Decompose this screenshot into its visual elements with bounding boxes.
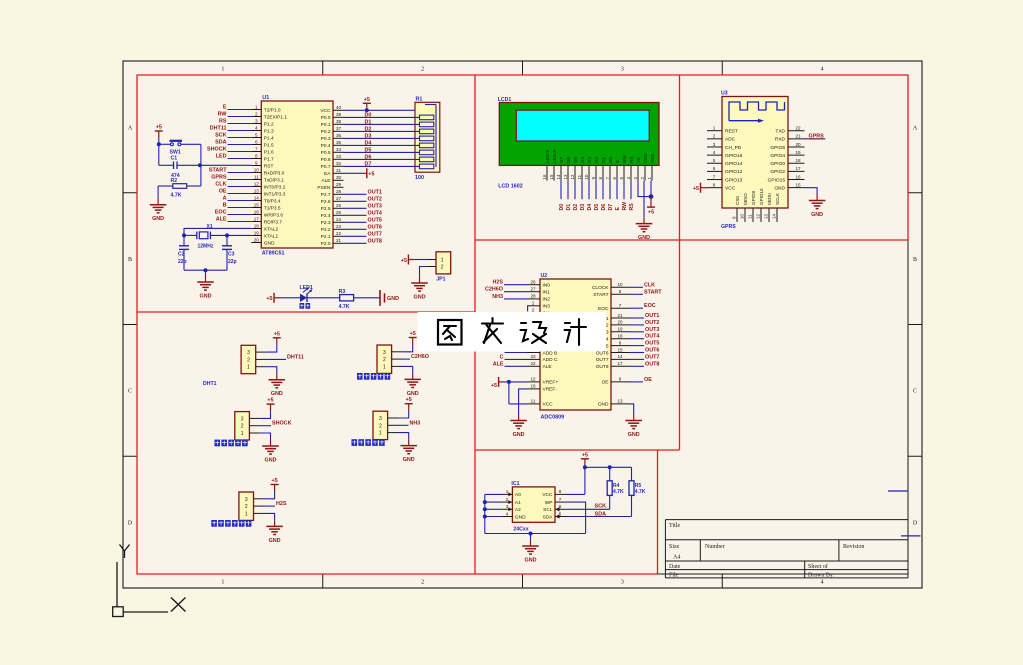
wire RST pin 9 (201, 164, 251, 166)
svg-text:T0/P3.4: T0/P3.4 (264, 198, 281, 204)
svg-text:SW1: SW1 (170, 149, 181, 155)
chinese label liuhuaqing sensor (211, 520, 251, 527)
svg-text:GND: GND (152, 216, 164, 222)
lcd data wires down (561, 181, 631, 200)
svg-text:VDD: VDD (643, 153, 648, 163)
wire SHOCK pin3 to +5 (260, 411, 271, 418)
connector SHOCK sensor body (235, 412, 260, 440)
svg-text:DHT1: DHT1 (203, 381, 217, 387)
ground for adc left (510, 415, 526, 439)
svg-text:P1.7: P1.7 (264, 156, 274, 162)
svg-text:22: 22 (336, 231, 342, 236)
wire H2S signal (264, 505, 275, 507)
svg-text:D3: D3 (580, 204, 586, 211)
svg-text:15: 15 (617, 347, 623, 352)
svg-text:16: 16 (542, 174, 547, 179)
svg-text:1: 1 (532, 301, 535, 306)
svg-text:P0.7: P0.7 (321, 164, 331, 170)
stray wire right edge near title block (901, 535, 921, 537)
svg-text:12: 12 (570, 174, 575, 179)
connector JP1 (426, 252, 450, 282)
svg-text:+5: +5 (582, 453, 588, 459)
svg-text:H2S: H2S (493, 280, 504, 286)
power +5 for gprs VCC (693, 183, 707, 193)
led LED1 (300, 285, 313, 302)
wire adc clock net (630, 286, 643, 288)
svg-text:14: 14 (254, 195, 260, 200)
svg-text:27: 27 (530, 287, 536, 292)
switch SW1 (159, 141, 201, 156)
svg-text:14: 14 (617, 354, 623, 359)
svg-text:D7: D7 (559, 157, 564, 163)
svg-text:GPIO14: GPIO14 (725, 161, 743, 167)
svg-text:GND: GND (269, 538, 281, 544)
svg-text:3: 3 (621, 67, 624, 73)
wire adc GND to ground (630, 404, 634, 415)
svg-text:1: 1 (221, 67, 224, 73)
svg-text:Date: Date (669, 564, 681, 570)
svg-text:OE: OE (602, 380, 609, 386)
svg-text:GND: GND (403, 457, 415, 463)
adc left pins with numbers and names (527, 280, 558, 408)
svg-text:ALE: ALE (543, 364, 552, 370)
svg-text:EOC: EOC (644, 303, 656, 309)
svg-text:JP1: JP1 (436, 276, 445, 282)
svg-text:Revision: Revision (843, 544, 864, 550)
wire SHOCK signal (260, 425, 271, 427)
svg-text:2: 2 (532, 308, 535, 313)
svg-text:+5: +5 (693, 186, 699, 192)
svg-text:Number: Number (705, 544, 725, 550)
mcu U1 left net labels (207, 105, 227, 223)
svg-text:Title: Title (669, 523, 680, 529)
svg-text:+5: +5 (267, 398, 273, 404)
wire JP1 pin 2 to ground (420, 267, 427, 278)
svg-text:5: 5 (713, 158, 716, 163)
svg-text:RS: RS (629, 157, 634, 163)
svg-text:D: D (128, 521, 133, 527)
svg-text:V0: V0 (636, 157, 641, 163)
svg-text:WR/P3.6: WR/P3.6 (264, 212, 284, 218)
svg-text:1: 1 (245, 511, 248, 517)
svg-text:VCC: VCC (542, 492, 553, 498)
svg-text:26: 26 (336, 203, 342, 208)
svg-text:13: 13 (563, 174, 568, 179)
svg-text:10: 10 (254, 167, 260, 172)
net labels D0-D7 (365, 112, 372, 167)
svg-text:D2: D2 (365, 126, 372, 132)
svg-text:2: 2 (245, 504, 248, 510)
svg-text:GPIO13: GPIO13 (725, 177, 743, 183)
gprs module U3 body (722, 97, 788, 209)
svg-text:NH3: NH3 (410, 420, 421, 426)
svg-text:OUT8: OUT8 (368, 238, 382, 244)
svg-text:R1: R1 (416, 96, 423, 102)
svg-text:11: 11 (748, 214, 753, 219)
svg-text:A: A (223, 196, 227, 202)
wire +5 to switch node (158, 138, 160, 165)
svg-text:GPIO16: GPIO16 (725, 153, 743, 159)
svg-text:D1: D1 (566, 204, 572, 211)
svg-text:OUT1: OUT1 (368, 189, 382, 195)
node dot reset to RST pin (198, 163, 202, 167)
node dot crystal left (182, 233, 186, 237)
svg-text:AT89C51: AT89C51 (262, 251, 285, 257)
svg-text:4: 4 (506, 511, 509, 516)
svg-text:C1: C1 (171, 156, 178, 162)
svg-text:2: 2 (247, 357, 250, 363)
svg-text:Size: Size (669, 544, 680, 550)
svg-text:17: 17 (617, 361, 623, 366)
svg-text:32: 32 (336, 161, 342, 166)
svg-text:1: 1 (379, 431, 382, 437)
svg-text:OUT2: OUT2 (368, 196, 382, 202)
capacitor C1 with value 474 (159, 156, 201, 179)
svg-text:X1: X1 (207, 224, 213, 230)
power +5 for H2S sensor (271, 478, 279, 492)
ground for reset circuit (150, 199, 167, 223)
svg-text:GND: GND (515, 514, 526, 520)
svg-text:22p: 22p (228, 259, 237, 265)
node dot +5 rail at R4 (608, 465, 612, 469)
wires OUT1-OUT8 from P2 port (344, 194, 367, 243)
svg-text:ADC: ADC (725, 137, 736, 143)
svg-text:4: 4 (713, 150, 716, 155)
svg-text:D1: D1 (601, 157, 606, 163)
svg-text:2: 2 (255, 111, 258, 116)
svg-text:4: 4 (821, 580, 824, 586)
svg-text:GPIO0: GPIO0 (770, 161, 785, 167)
wire adc eoc net (630, 307, 643, 309)
wire EA pin to +5 (344, 172, 363, 174)
svg-text:VCC: VCC (725, 185, 736, 191)
inner border frame (137, 75, 908, 574)
svg-text:EOC: EOC (215, 210, 227, 216)
svg-text:LCD 1602: LCD 1602 (498, 183, 523, 189)
svg-text:D0: D0 (365, 112, 372, 118)
mcu U1 AT89C51 body (261, 101, 333, 248)
svg-text:TxD/P3.1: TxD/P3.1 (264, 177, 284, 183)
svg-text:8: 8 (559, 489, 562, 494)
svg-text:R3: R3 (339, 289, 346, 295)
power +5 for JP1 (401, 255, 414, 265)
svg-text:8: 8 (255, 153, 258, 158)
wire adc start net (630, 293, 643, 295)
svg-text:2: 2 (421, 580, 424, 586)
svg-text:R4: R4 (613, 483, 620, 489)
svg-text:LED1: LED1 (300, 285, 313, 291)
svg-text:21: 21 (336, 238, 342, 243)
svg-text:OUT7: OUT7 (645, 354, 659, 360)
lcd pin lines and numbers (542, 165, 652, 180)
svg-text:Drawn By:: Drawn By: (808, 573, 835, 579)
svg-text:SDA: SDA (215, 140, 226, 146)
svg-text:17: 17 (254, 216, 260, 221)
svg-text:2: 2 (506, 497, 509, 502)
wire NH3 pin3 to +5 (398, 411, 409, 418)
wire eeprom ground rail (485, 533, 586, 535)
svg-text:SCK: SCK (595, 503, 606, 509)
svg-text:LED: LED (216, 154, 227, 160)
node dot VCC row (365, 108, 369, 112)
svg-text:36: 36 (336, 133, 342, 138)
svg-text:39: 39 (336, 112, 342, 117)
wire C2H6O pin3 to +5 (402, 345, 413, 352)
svg-text:DHT11: DHT11 (210, 126, 227, 132)
svg-text:12MHz: 12MHz (198, 244, 214, 250)
svg-text:RXD: RXD (775, 137, 786, 143)
svg-text:4.7K: 4.7K (171, 192, 182, 198)
svg-text:OUT5: OUT5 (368, 217, 382, 223)
svg-text:GND: GND (271, 391, 283, 397)
eeprom right pins (542, 489, 566, 520)
svg-text:12: 12 (756, 214, 761, 219)
svg-text:SDA: SDA (595, 511, 606, 517)
svg-text:23: 23 (530, 354, 536, 359)
svg-text:P1.4: P1.4 (264, 135, 274, 141)
wire XTAL2 to crystal left (184, 228, 251, 245)
svg-text:A: A (128, 126, 133, 132)
svg-text:D2: D2 (594, 157, 599, 163)
svg-text:SHOCK: SHOCK (272, 421, 292, 427)
svg-text:PSEN: PSEN (317, 185, 331, 191)
lcd net labels rotated (559, 202, 635, 211)
svg-text:13: 13 (617, 399, 623, 404)
axis marker origin (113, 545, 186, 617)
svg-text:GND: GND (774, 185, 785, 191)
svg-text:1: 1 (441, 258, 444, 264)
svg-text:Sheet of: Sheet of (808, 563, 828, 570)
svg-text:12: 12 (254, 181, 260, 186)
svg-text:6: 6 (255, 139, 258, 144)
wire DHT11 pin3 to +5 (266, 345, 277, 352)
svg-text:22: 22 (795, 126, 801, 131)
svg-text:GND: GND (811, 212, 823, 218)
lcd module LCD1 body (499, 103, 659, 166)
svg-text:GND: GND (265, 458, 277, 464)
svg-text:P0.6: P0.6 (321, 157, 331, 163)
ground for gprs (809, 195, 826, 219)
wire NH3 signal (398, 424, 409, 426)
svg-text:D2: D2 (573, 204, 579, 211)
svg-text:10: 10 (740, 214, 745, 219)
wire eeprom SDA to R5 net SDA (566, 516, 632, 518)
svg-text:D3: D3 (365, 133, 372, 139)
svg-text:OE: OE (644, 377, 652, 383)
svg-text:16: 16 (254, 209, 260, 214)
svg-text:1: 1 (255, 104, 258, 109)
svg-text:U1: U1 (262, 95, 269, 101)
svg-text:17: 17 (795, 166, 801, 171)
svg-text:2: 2 (441, 265, 444, 271)
svg-text:B: B (223, 203, 227, 209)
wires eeprom address pins tied to ground rail (485, 494, 502, 533)
mcu U1 left net wires (228, 110, 252, 222)
wire +5 to LED1 (279, 297, 300, 299)
antenna symbol inside U3 (729, 102, 785, 123)
svg-text:OUT7: OUT7 (596, 357, 609, 363)
svg-text:7: 7 (559, 497, 562, 502)
svg-text:20: 20 (617, 320, 623, 325)
red section partition lines (137, 75, 908, 574)
svg-text:A0: A0 (515, 492, 521, 498)
wires adc address pins (505, 353, 528, 367)
zone labels (128, 67, 918, 586)
wire eeprom SCL to R4 net SCK (566, 508, 610, 510)
svg-text:24Cxx: 24Cxx (513, 527, 528, 533)
ground for crystal circuit (197, 276, 214, 300)
svg-text:INT0/P3.2: INT0/P3.2 (264, 184, 286, 190)
svg-text:GND: GND (264, 240, 275, 246)
wire +5 rail to VCC and pullups (566, 467, 632, 494)
svg-text:1: 1 (241, 431, 244, 437)
wire XTAL1 to crystal right (227, 235, 251, 245)
svg-text:OUT1: OUT1 (645, 313, 659, 319)
svg-text:10: 10 (584, 174, 589, 179)
zone tick marks (123, 61, 922, 588)
svg-text:A: A (913, 126, 918, 132)
svg-text:38: 38 (336, 119, 342, 124)
svg-text:8: 8 (713, 182, 716, 187)
svg-text:P0.4: P0.4 (321, 143, 331, 149)
svg-text:SHOCK: SHOCK (207, 147, 227, 153)
svg-text:+5: +5 (364, 97, 370, 103)
wire LED1 to R3 (307, 297, 340, 299)
svg-text:GPIO15: GPIO15 (768, 177, 786, 183)
power +5 for SHOCK sensor (267, 398, 275, 412)
svg-text:2: 2 (421, 67, 424, 73)
connector H2S sensor body (239, 492, 264, 520)
svg-text:16: 16 (530, 384, 536, 389)
svg-text:C2H6O: C2H6O (485, 287, 503, 293)
svg-text:15: 15 (254, 202, 260, 207)
svg-text:OUT7: OUT7 (368, 231, 382, 237)
svg-text:7: 7 (255, 146, 258, 151)
svg-text:GPIO2: GPIO2 (770, 169, 785, 175)
node dot reset rail left (157, 142, 161, 146)
svg-text:+5: +5 (274, 331, 280, 337)
svg-text:30: 30 (336, 175, 342, 180)
wires adc OUT1-OUT8 (630, 318, 644, 366)
svg-text:OUT4: OUT4 (368, 210, 382, 216)
svg-text:28: 28 (530, 294, 536, 299)
svg-text:7: 7 (713, 174, 716, 179)
eeprom IC1 body (512, 487, 555, 522)
svg-text:START: START (644, 289, 662, 295)
svg-text:OUT6: OUT6 (368, 224, 382, 230)
resistor R5 4.7K pullup (629, 467, 646, 516)
svg-text:+5: +5 (368, 171, 374, 177)
svg-text:ADC0809: ADC0809 (541, 414, 565, 420)
watermark text tu wen she ji (438, 318, 586, 345)
svg-text:ALE: ALE (493, 361, 504, 367)
svg-text:D4: D4 (587, 204, 593, 211)
svg-text:VCC: VCC (320, 108, 331, 114)
svg-text:CH_PD: CH_PD (725, 145, 742, 151)
outer border frame (123, 61, 922, 588)
svg-text:OUT8: OUT8 (645, 361, 659, 367)
svg-text:6: 6 (619, 289, 622, 294)
wire DHT11 signal (266, 358, 286, 360)
svg-text:33: 33 (336, 154, 342, 159)
wire R2 to ground (157, 186, 159, 199)
svg-text:3: 3 (383, 350, 386, 356)
svg-text:+5: +5 (491, 383, 497, 389)
power +5 for reset circuit (155, 125, 163, 139)
adc right pins with numbers and names (592, 282, 630, 408)
chinese label anqi sensor (352, 439, 385, 446)
svg-text:GND: GND (628, 432, 640, 438)
svg-text:E: E (615, 207, 621, 211)
svg-text:3: 3 (245, 497, 248, 503)
svg-text:START: START (209, 168, 227, 174)
gprs bottom pins 9-14 (732, 188, 781, 222)
svg-text:MISO: MISO (743, 193, 748, 205)
power +5 below lcd junction (647, 197, 655, 216)
svg-text:+5: +5 (272, 478, 278, 484)
svg-text:P0.3: P0.3 (321, 136, 331, 142)
svg-text:IN1: IN1 (543, 290, 551, 296)
svg-text:3: 3 (379, 416, 382, 422)
wire lcd VSS down (650, 181, 652, 197)
wire DHT11 pin1 to ground (266, 367, 277, 374)
svg-text:D6: D6 (601, 204, 607, 211)
svg-text:IN3: IN3 (543, 304, 551, 310)
svg-text:P2.7: P2.7 (321, 192, 331, 198)
svg-text:P2.1: P2.1 (321, 234, 331, 240)
svg-text:REST: REST (725, 129, 738, 135)
svg-text:D6: D6 (566, 157, 571, 163)
svg-text:A2: A2 (515, 507, 521, 513)
svg-text:GPRS: GPRS (721, 224, 736, 230)
svg-text:E: E (223, 105, 227, 111)
svg-text:START: START (593, 292, 608, 298)
svg-text:GND: GND (200, 294, 212, 300)
svg-text:C: C (128, 389, 132, 395)
svg-text:B: B (128, 257, 132, 263)
wire C2H6O pin1 to ground (402, 366, 413, 373)
svg-text:2: 2 (713, 134, 716, 139)
svg-text:16: 16 (795, 174, 801, 179)
gprs left pins 1-8 (707, 126, 743, 192)
svg-text:22p: 22p (178, 259, 187, 265)
wire gprs GND to ground (805, 188, 818, 195)
svg-text:D0: D0 (608, 157, 613, 163)
svg-text:GND: GND (387, 296, 399, 302)
svg-text:A4: A4 (673, 555, 680, 561)
node dot ground rail center (204, 268, 208, 272)
svg-text:OUT2: OUT2 (645, 320, 659, 326)
wires D0-D7 from P0 port to R1 (344, 117, 420, 166)
svg-text:12: 12 (530, 377, 536, 382)
svg-text:18: 18 (795, 158, 801, 163)
svg-text:T2/P1.0: T2/P1.0 (264, 107, 281, 113)
ground for NH3 sensor (400, 440, 417, 464)
connector DHT11 sensor body (241, 345, 266, 373)
svg-text:18: 18 (254, 223, 260, 228)
wire eeprom WP to rail (566, 502, 586, 533)
svg-text:IN2: IN2 (543, 297, 551, 303)
power +5 for VCC pin 40 (363, 97, 371, 111)
svg-text:CLK: CLK (215, 182, 226, 188)
svg-text:C3: C3 (228, 252, 235, 258)
svg-text:WP: WP (545, 500, 553, 506)
svg-text:File: File (669, 573, 679, 579)
ground for eeprom (522, 540, 539, 564)
svg-text:13: 13 (254, 188, 260, 193)
svg-text:TXD: TXD (775, 129, 785, 135)
svg-text:IN0: IN0 (543, 283, 551, 289)
